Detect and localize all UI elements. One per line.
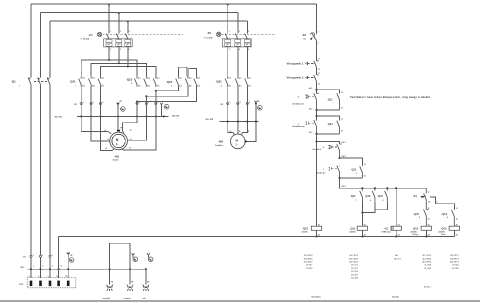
svg-text:v1: v1 — [107, 139, 109, 141]
svg-text:-104 2: -104 2 — [341, 155, 346, 158]
svg-text:Vészgomb 2: Vészgomb 2 — [287, 76, 304, 80]
svg-text:4T2: 4T2 — [189, 84, 192, 87]
svg-text:3L2 \ 4T2 2: 3L2 \ 4T2 2 — [349, 257, 358, 260]
svg-text:M: M — [116, 138, 119, 142]
wire delta branch — [430, 197, 455, 210]
svg-text:(55kW): (55kW) — [439, 232, 445, 234]
wire star bridge Q15 poles 1-2 — [178, 67, 187, 76]
wire PE stub to X10 — [67, 254, 69, 278]
svg-text:-X1: -X1 — [23, 257, 27, 259]
coil Q13 star — [411, 223, 432, 236]
svg-text:5: 5 — [248, 31, 249, 33]
coil Q15 delta — [439, 223, 460, 236]
svg-text:N: N — [239, 131, 241, 133]
svg-text:3L2 \ 4T2 4: 3L2 \ 4T2 4 — [304, 257, 313, 260]
svg-text:-Q21: -Q21 — [327, 122, 333, 126]
motor breaker F2 — [204, 31, 277, 51]
svg-text:3: 3 — [120, 31, 121, 33]
svg-text:Ventilátort nem lehet kikapcso: Ventilátort nem lehet kikapcsolni, míg m… — [350, 95, 431, 99]
wire bus L1 — [31, 4, 317, 5]
svg-text:Vészgomb 1: Vészgomb 1 — [287, 61, 304, 65]
svg-text:(55kW): (55kW) — [350, 232, 356, 234]
svg-text:u1: u1 — [104, 130, 106, 132]
svg-text:6: 6 — [248, 49, 249, 51]
wire drop bus to F1 pole2 — [118, 13, 120, 34]
svg-text:7: 7 — [356, 173, 357, 175]
coil K1 timer — [382, 188, 402, 236]
svg-text:3: 3 — [239, 31, 240, 33]
svg-text:-M2: -M2 — [218, 139, 223, 143]
svg-text:2T1: 2T1 — [179, 85, 182, 87]
earth electrode szekreny — [124, 269, 135, 300]
svg-text:5L3: 5L3 — [248, 78, 251, 80]
svg-text:1: 1 — [83, 102, 84, 104]
terminal strip X2 motor1 — [74, 101, 159, 106]
svg-text:-104 1: -104 1 — [341, 141, 346, 144]
svg-text:4: 4 — [221, 84, 222, 87]
svg-text:28 s: 28 s — [395, 255, 398, 257]
svg-text:A2: A2 — [318, 233, 320, 236]
contact Q21 selfhold — [327, 119, 343, 134]
svg-text:6a: 6a — [304, 38, 307, 40]
PE symbol motor1 cable — [117, 101, 126, 111]
svg-text:21 \ 22 8: 21 \ 22 8 — [425, 268, 432, 270]
svg-text:4T2: 4T2 — [92, 84, 95, 87]
svg-text:21: 21 — [428, 208, 430, 210]
svg-text:5: 5 — [52, 255, 53, 257]
wire rail F3 to Veszgomb1 — [316, 41, 318, 61]
wire motor1 lead W2 — [122, 102, 137, 134]
contactor Q21 poles — [216, 77, 251, 88]
svg-text:5L3: 5L3 — [101, 78, 104, 80]
svg-text:-X2: -X2 — [74, 104, 78, 106]
wire Q13 Q15 aux join — [361, 201, 387, 213]
svg-text:21 \ 22 7: 21 \ 22 7 — [351, 268, 358, 270]
svg-text:2T1: 2T1 — [82, 85, 85, 87]
wire motor1 lead W1 — [101, 87, 114, 151]
svg-text:5L3 \ 6T3 2: 5L3 \ 6T3 2 — [450, 262, 459, 264]
svg-text:22: 22 — [318, 83, 320, 85]
wire motor1 lead U1 — [81, 87, 111, 134]
svg-text:5L3: 5L3 — [197, 78, 200, 80]
svg-text:1L1: 1L1 — [179, 78, 182, 80]
svg-text:szivattyú: szivattyú — [124, 297, 131, 300]
cross-reference table Q11 — [349, 255, 358, 279]
svg-text:4: 4 — [239, 48, 240, 51]
svg-text:5L3: 5L3 — [157, 78, 160, 80]
svg-text:szivattyúk: szivattyúk — [102, 297, 110, 300]
wire branch to Q21 selfhold — [317, 116, 340, 120]
contact Q11 bypass — [327, 92, 343, 110]
svg-text:-Q15: -Q15 — [413, 212, 419, 216]
wire motor1 lead V1 — [91, 87, 110, 141]
svg-text:13 \ 14 8: 13 \ 14 8 — [425, 264, 432, 267]
svg-text:13: 13 — [341, 92, 343, 94]
contact Q13 delta select — [441, 208, 457, 226]
svg-text:3~ 20-25A: 3~ 20-25A — [81, 38, 90, 41]
wire rail to stage1 — [309, 81, 318, 93]
svg-text:-W1_M1: -W1_M1 — [54, 117, 63, 119]
main switch Q1 — [11, 77, 50, 88]
svg-text:1: 1 — [323, 169, 325, 171]
svg-text:4T2: 4T2 — [147, 84, 150, 87]
motor M2 — [215, 131, 250, 149]
wire rail to stage2 — [316, 110, 318, 120]
cross-reference table Q21 — [304, 254, 313, 270]
contact Q13 aux — [365, 188, 375, 202]
svg-text:2T1: 2T1 — [228, 85, 231, 87]
svg-text:Ventilátor: Ventilátor — [215, 144, 223, 147]
svg-text:v2: v2 — [129, 147, 131, 149]
svg-text:Daráló ki: Daráló ki — [313, 148, 322, 151]
svg-text:6T3: 6T3 — [248, 85, 251, 87]
svg-text:PE: PE — [120, 101, 123, 103]
motor M1 — [104, 128, 131, 162]
wire motor1 lead U2 — [127, 96, 146, 140]
svg-text:22: 22 — [428, 218, 430, 220]
svg-text:-Q13: -Q13 — [412, 227, 418, 231]
svg-text:2: 2 — [29, 276, 30, 278]
svg-text:-Q15: -Q15 — [377, 194, 383, 198]
cable W1_M1 definition line — [54, 115, 180, 118]
start button Darálo be — [316, 166, 340, 178]
svg-text:-94 1: -94 1 — [309, 87, 313, 90]
svg-text:9: 9 — [249, 102, 250, 104]
svg-text:2: 2 — [43, 266, 44, 268]
svg-text:3L2: 3L2 — [147, 78, 150, 80]
svg-text:M: M — [236, 139, 239, 143]
svg-text:8: 8 — [419, 217, 420, 219]
svg-text:PE: PE — [111, 282, 114, 284]
svg-text:-104 3: -104 3 — [341, 185, 346, 188]
svg-text:-W1_M2: -W1_M2 — [205, 119, 214, 121]
svg-text:14: 14 — [364, 175, 366, 178]
contact Q15 interlock — [413, 208, 429, 226]
wire Q15 pole3 to motor lead V2 — [136, 87, 196, 103]
svg-text:14: 14 — [341, 129, 343, 132]
PE motor symbol 2 — [147, 253, 153, 261]
svg-text:PE: PE — [120, 128, 123, 130]
svg-text:Ventilátor ki: Ventilátor ki — [292, 102, 304, 105]
svg-text:8: 8 — [240, 102, 241, 104]
wire rail to Veszgomb2 — [316, 67, 318, 74]
svg-text:1L1 \ 2T1 4: 1L1 \ 2T1 4 — [304, 254, 313, 257]
terminal strip X1 — [23, 255, 53, 259]
PE bonding loop — [110, 243, 130, 269]
svg-text:3: 3 — [52, 266, 53, 268]
svg-text:-94 2: -94 2 — [309, 107, 313, 110]
svg-text:-Q11: -Q11 — [350, 227, 356, 231]
svg-text:3: 3 — [102, 102, 103, 104]
svg-text:-W2_M1: -W2_M1 — [172, 116, 181, 118]
svg-text:3: 3 — [42, 255, 43, 257]
svg-text:3~ 6,3-10A: 3~ 6,3-10A — [204, 36, 214, 39]
svg-text:9: 9 — [437, 202, 438, 204]
svg-text:1: 1 — [33, 255, 34, 257]
wire L3 drop to Q1 — [49, 21, 51, 77]
contactor Q15 star poles — [166, 77, 200, 88]
wire rejoin stage1 — [309, 107, 340, 111]
wire L2 drop to Q1 — [40, 13, 42, 77]
svg-text:21 \ 22 8: 21 \ 22 8 — [452, 268, 459, 270]
wire F1 pole1 output — [108, 47, 110, 60]
svg-text:11: 11 — [318, 59, 320, 61]
contact Q11 NO to coil — [350, 188, 362, 202]
wire drop bus to F1 pole1 — [108, 4, 110, 34]
svg-text:3L2 \ 4T2 2: 3L2 \ 4T2 2 — [423, 257, 432, 260]
timed contact K1 — [413, 188, 430, 209]
svg-text:18: 18 — [428, 201, 430, 203]
svg-text:A2: A2 — [364, 233, 366, 236]
svg-text:6: 6 — [158, 102, 159, 104]
wire rejoin stage2 — [309, 131, 340, 135]
svg-text:8: 8 — [383, 200, 384, 202]
cross-reference table Q13 — [423, 255, 432, 270]
wire L1 drop to Q1 — [30, 4, 32, 77]
svg-text:A2: A2 — [398, 233, 400, 236]
svg-text:53 \ 54 8: 53 \ 54 8 — [351, 277, 358, 280]
svg-text:2: 2 — [318, 42, 319, 44]
svg-text:1L1: 1L1 — [228, 78, 231, 80]
svg-text:1L1 \ 2T1 2: 1L1 \ 2T1 2 — [349, 255, 358, 257]
wire Q21 pole2 down — [237, 87, 239, 135]
wire fanout phase1 to Q11 and Q13 — [81, 60, 137, 77]
svg-text:3L2: 3L2 — [189, 78, 192, 80]
svg-text:14: 14 — [456, 217, 458, 220]
svg-text:7: 7 — [356, 200, 357, 202]
terminal strip X2 motor2 — [220, 102, 250, 106]
svg-text:4: 4 — [131, 82, 132, 85]
cable W1 definition line — [20, 266, 147, 271]
wire drop bus to F2 pole3 — [246, 21, 248, 34]
svg-text:2: 2 — [110, 49, 111, 51]
svg-text:PE: PE — [257, 101, 260, 103]
svg-text:1L1 \ 2T1 2: 1L1 \ 2T1 2 — [423, 255, 432, 257]
wire bus L3 — [50, 21, 247, 22]
svg-text:14: 14 — [341, 107, 343, 110]
svg-text:1L1: 1L1 — [138, 78, 141, 80]
svg-text:18 \ 17 8: 18 \ 17 8 — [394, 258, 401, 260]
svg-text:4: 4 — [370, 199, 371, 202]
svg-text:-Q11: -Q11 — [327, 98, 333, 102]
svg-text:szitó: szitó — [142, 297, 146, 300]
svg-text:-Q21: -Q21 — [216, 80, 223, 84]
svg-text:5L3 \ 6T3 4: 5L3 \ 6T3 4 — [304, 261, 313, 264]
wire rail down to Q21 coil — [315, 134, 317, 226]
wire star bridge Q15 poles 2-3 — [189, 69, 197, 77]
svg-text:Delta: Delta — [441, 233, 446, 236]
svg-text:4: 4 — [139, 101, 140, 104]
wire phase1 down to X1 — [30, 87, 32, 278]
wire F1 pole3 output — [127, 47, 129, 67]
wire F2 pole2 to Q21 — [237, 47, 239, 77]
wire motor1 lead V2 — [121, 91, 156, 150]
svg-text:PE: PE — [70, 255, 73, 257]
svg-text:2: 2 — [93, 102, 94, 104]
svg-text:N: N — [61, 266, 63, 268]
svg-text:1~: 1~ — [235, 144, 238, 147]
svg-text:-Q15: -Q15 — [441, 227, 447, 231]
coil Q21 — [302, 223, 322, 236]
earth electrode szivattyu — [102, 269, 114, 300]
wire rejoin grinder — [338, 177, 362, 179]
svg-text:-Q13: -Q13 — [441, 212, 447, 216]
wire branch to Q11 selfhold — [338, 155, 362, 166]
wire Q21 pole1 down — [228, 87, 235, 136]
wire bus L1 drop to F3 — [316, 4, 318, 34]
svg-text:3~: 3~ — [116, 143, 119, 146]
svg-text:Daráló be: Daráló be — [316, 171, 326, 174]
stop button Darálo ki — [313, 144, 342, 158]
svg-text:-F3: -F3 — [302, 33, 307, 37]
svg-text:-Q21: -Q21 — [302, 227, 308, 231]
svg-text:-Q13: -Q13 — [365, 194, 371, 198]
svg-text:13 \ 14 7: 13 \ 14 7 — [306, 264, 313, 267]
svg-text:Csillag: Csillag — [412, 234, 418, 236]
svg-text:7: 7 — [333, 103, 334, 105]
wire drop bus to F2 pole1 — [227, 4, 229, 34]
svg-text:-K1: -K1 — [384, 227, 389, 231]
PE symbol at incoming cable — [67, 252, 74, 262]
svg-text:-94 3: -94 3 — [309, 131, 313, 134]
svg-text:1: 1 — [19, 86, 20, 88]
svg-text:PE: PE — [247, 131, 250, 133]
svg-text:6T3: 6T3 — [101, 85, 104, 87]
wire fanout phase2 to Q11 and Q13 — [91, 63, 146, 76]
svg-text:-W1: -W1 — [20, 267, 25, 269]
svg-text:w2: w2 — [129, 130, 131, 132]
svg-text:13 \ 14 8: 13 \ 14 8 — [452, 264, 459, 267]
cross-reference table Q15 — [424, 255, 459, 289]
svg-text:2T1: 2T1 — [138, 85, 141, 87]
svg-text:-K1: -K1 — [413, 194, 418, 198]
svg-text:ETR4-51-A: ETR4-51-A — [382, 231, 392, 234]
wire PE stub cable2 — [161, 104, 163, 117]
svg-text:(15kW): (15kW) — [302, 232, 308, 234]
svg-text:-Q11: -Q11 — [70, 80, 77, 84]
svg-text:7: 7 — [230, 102, 231, 104]
svg-text:(55kW): (55kW) — [411, 232, 417, 234]
stop button Ventilator ki — [292, 93, 319, 110]
wire motor2 PE — [246, 104, 256, 142]
wire grinder bus — [340, 178, 427, 189]
svg-text:6T3: 6T3 — [157, 85, 160, 87]
wire drop bus to F1 pole3 — [127, 21, 129, 34]
svg-text:-F2: -F2 — [207, 31, 212, 35]
svg-text:-X10: -X10 — [19, 284, 24, 286]
svg-text:21: 21 — [318, 73, 320, 75]
svg-text:-Q15: -Q15 — [166, 80, 173, 84]
wire branch to Q11 bypass — [317, 90, 340, 94]
svg-text:12: 12 — [318, 69, 320, 71]
start button Ventilator be — [292, 120, 316, 134]
svg-text:u2: u2 — [130, 139, 132, 141]
svg-text:U1: U1 — [229, 131, 231, 133]
svg-text:5: 5 — [129, 31, 130, 33]
svg-text:0: 0 — [323, 147, 325, 149]
svg-text:Daráló: Daráló — [392, 295, 399, 298]
page bottom border — [0, 300, 480, 302]
wire F2 pole1 to Q21 — [227, 47, 229, 77]
svg-text:13: 13 — [456, 208, 458, 210]
svg-text:6: 6 — [129, 49, 130, 51]
wire N from bottom rail to X10 — [58, 237, 60, 278]
svg-text:7: 7 — [75, 85, 76, 87]
wire fanout phase3 to Q11 and Q13 — [101, 67, 156, 77]
svg-text:5L3 \ 6T3 2: 5L3 \ 6T3 2 — [423, 262, 432, 264]
wire to Q11 coil — [361, 201, 363, 226]
contact Q15 aux — [377, 188, 387, 202]
svg-text:-Q13: -Q13 — [126, 77, 133, 81]
svg-text:4: 4 — [38, 275, 39, 278]
svg-text:Daráló: Daráló — [113, 160, 119, 162]
svg-text:43 \ 44 7: 43 \ 44 7 — [351, 273, 358, 276]
breaker F3 — [302, 32, 319, 45]
cable W1_M2 definition line — [205, 119, 259, 123]
svg-text:3L2: 3L2 — [92, 78, 95, 80]
svg-text:13 \ 14 7: 13 \ 14 7 — [351, 264, 358, 267]
svg-text:A2: A2 — [456, 233, 458, 236]
wire branch to grinder rail — [317, 141, 346, 144]
svg-text:5: 5 — [148, 102, 149, 104]
svg-text:-Q11: -Q11 — [350, 194, 356, 198]
contact Q11 selfhold — [351, 164, 366, 178]
svg-text:-Q1: -Q1 — [11, 79, 16, 83]
svg-text:1: 1 — [229, 31, 230, 33]
svg-text:-F1: -F1 — [89, 33, 94, 37]
svg-text:21 \ 22 8: 21 \ 22 8 — [306, 268, 313, 270]
svg-text:31 \ 32 8: 31 \ 32 8 — [351, 271, 358, 273]
svg-text:6: 6 — [48, 276, 49, 278]
cross-reference table K1 — [394, 255, 401, 260]
wire bus L2 — [41, 13, 238, 14]
wire neutral rail — [59, 235, 455, 237]
emergency stop Veszgomb 2 — [287, 73, 320, 85]
svg-text:PE: PE — [131, 282, 134, 284]
svg-text:6T3: 6T3 — [197, 85, 200, 87]
svg-text:3L2 \ 4T2 2: 3L2 \ 4T2 2 — [450, 257, 459, 260]
terminal strip X10 — [19, 275, 76, 288]
svg-text:Ventilátor: Ventilátor — [311, 295, 321, 298]
wire PE to motor1 frame — [117, 104, 119, 130]
PE symbol motor2 — [254, 101, 262, 110]
wire F1 pole2 output — [118, 47, 120, 63]
wire F2 pole3 to Q21 — [246, 47, 248, 77]
wire drop bus to F2 pole2 — [237, 13, 239, 34]
emergency stop Veszgomb 1 — [287, 59, 320, 71]
svg-text:-M1: -M1 — [114, 154, 119, 158]
PE motor symbol szekreny — [132, 253, 138, 261]
motor breaker F1 — [81, 31, 184, 51]
svg-text:4: 4 — [120, 48, 121, 51]
wire Q21 pole3 down — [241, 87, 247, 136]
svg-text:3L2: 3L2 — [239, 78, 242, 80]
PE symbol motor1 cable2 — [160, 103, 169, 109]
svg-text:13: 13 — [341, 119, 343, 121]
svg-text:PE: PE — [147, 282, 150, 284]
svg-text:8: 8 — [171, 86, 172, 88]
contactor Q13 delta poles — [126, 77, 159, 88]
svg-text:4T2: 4T2 — [239, 84, 242, 87]
svg-text:13: 13 — [364, 164, 366, 166]
svg-text:4: 4 — [447, 216, 448, 219]
wire phase3 down to X1 — [49, 87, 51, 278]
svg-text:-Q11: -Q11 — [351, 168, 357, 172]
svg-text:1: 1 — [318, 32, 319, 34]
coil Q11 — [350, 223, 368, 236]
svg-text:1: 1 — [298, 123, 300, 125]
svg-text:A2: A2 — [428, 233, 430, 236]
